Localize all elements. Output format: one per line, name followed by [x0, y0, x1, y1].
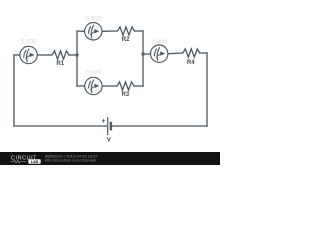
wire right junction vertical: [142, 31, 144, 86]
footer logo LAB box: [28, 159, 40, 164]
svg-text:R4: R4: [187, 60, 195, 66]
ammeter AM1: [20, 46, 37, 63]
ammeter AM2: [85, 23, 102, 40]
battery V1 plate short: [110, 122, 112, 131]
wire R1 left lead to AM1: [37, 54, 51, 56]
footer bar: [0, 152, 220, 165]
node junction right: [142, 53, 145, 56]
wire left junction vertical: [76, 31, 78, 86]
wire R3 left lead to AM3: [102, 85, 116, 87]
svg-text:V: V: [107, 138, 111, 144]
svg-text:0.000: 0.000: [21, 39, 37, 46]
wire bottom rail left of battery: [14, 125, 107, 127]
resistor R1: [52, 51, 69, 59]
wire R1 right lead from junction: [69, 54, 77, 56]
svg-text:LAB: LAB: [31, 160, 39, 164]
ammeter AM3: [85, 77, 102, 94]
svg-text:0.000: 0.000: [151, 39, 167, 46]
wire bottom rail right of battery: [112, 125, 207, 127]
wire R3 right lead: [134, 85, 143, 87]
wire AM1 left to left rail corner: [14, 54, 20, 56]
svg-text:R3: R3: [121, 92, 129, 98]
wire AM4 left to junction: [143, 53, 150, 55]
wire left rail vertical: [13, 55, 15, 126]
wire R4 left lead to AM4: [168, 52, 182, 55]
battery plus sign: [102, 119, 105, 122]
wire AM3 left to left junction: [77, 85, 85, 87]
wire R2 right lead: [135, 30, 144, 32]
svg-text:http://circuitlab.com/c5mr4pb: http://circuitlab.com/c5mr4pb: [45, 158, 97, 163]
resistor R4: [183, 49, 200, 57]
svg-text:0.000: 0.000: [86, 15, 102, 22]
ammeter AM4: [151, 45, 168, 62]
wire AM2 left to left junction: [77, 30, 85, 32]
wire R4 right lead: [200, 52, 207, 54]
wire R2 left lead to AM2: [102, 30, 117, 32]
svg-text:R1: R1: [56, 61, 64, 67]
battery V1 plate long: [107, 117, 109, 135]
resistor R2: [118, 27, 135, 35]
svg-text:R2: R2: [122, 37, 130, 43]
svg-text:0.000: 0.000: [86, 70, 102, 77]
resistor R3: [117, 82, 134, 90]
footer logo zigzag: [11, 160, 27, 163]
wire right rail vertical: [206, 53, 208, 126]
node junction left: [76, 54, 79, 57]
